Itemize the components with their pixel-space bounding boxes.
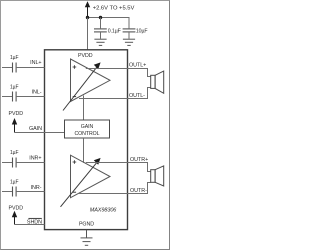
svg-text:PGND: PGND — [79, 221, 94, 227]
svg-text:INL-: INL- — [32, 90, 42, 96]
svg-text:OUTR-: OUTR- — [130, 188, 147, 194]
speaker SPKR — [151, 166, 164, 186]
op-amp A2 right-channel triangle — [71, 155, 111, 198]
wire: A1 to gain control — [83, 96, 85, 121]
VDD supply arrow — [85, 1, 90, 17]
gain arrow through A2 — [61, 158, 101, 207]
IC U1 MAX98306 outline box — [45, 50, 128, 230]
ground under C6 — [123, 39, 135, 45]
svg-text:1µF: 1µF — [10, 180, 18, 186]
junction dot at 0.1uF tap — [99, 16, 102, 19]
wire: C2 to INL- pin — [16, 96, 44, 98]
capacitor C3 1uF (INR+) — [2, 158, 16, 168]
svg-text:OUTL-: OUTL- — [129, 93, 145, 99]
svg-text:INL+: INL+ — [30, 60, 41, 66]
wire: A1 out+ to OUTL+ — [86, 69, 151, 77]
wire: gain control to A2 — [83, 138, 85, 163]
wire: rail down to PVDD pin — [87, 18, 89, 51]
svg-text:MAX98306: MAX98306 — [90, 208, 118, 214]
svg-text:PVDD: PVDD — [78, 53, 93, 59]
wire: PGND stub — [86, 230, 88, 238]
junction dot at PVDD feed — [86, 16, 89, 19]
ground under C5 — [94, 39, 106, 45]
wire: C3 to INR+ pin — [16, 162, 44, 164]
wire: A2 out+ to OUTR+ — [86, 163, 151, 172]
svg-text:INR+: INR+ — [29, 155, 41, 161]
svg-text:OUTL+: OUTL+ — [129, 62, 146, 68]
capacitor C2 1uF (INL-) — [2, 92, 16, 102]
capacitor C1 1uF (INL+) — [2, 63, 16, 73]
wire: C1 to INL+ pin — [16, 67, 44, 69]
svg-text:CONTROL: CONTROL — [74, 131, 99, 137]
wire: PVDD to SHDN pin — [15, 224, 45, 226]
svg-text:OUTR+: OUTR+ — [130, 157, 148, 163]
plus input mark — [73, 160, 77, 164]
svg-text:+2.6V TO +5.5V: +2.6V TO +5.5V — [93, 5, 135, 11]
wire: PVDD to GAIN pin into gain control — [15, 132, 65, 134]
svg-text:0.1µF: 0.1µF — [108, 28, 121, 34]
PVDD source arrow (SHDN pull-up) — [9, 206, 24, 225]
svg-text:PVDD: PVDD — [9, 206, 24, 212]
capacitor C5 0.1uF — [94, 18, 107, 39]
svg-text:INR-: INR- — [31, 185, 42, 191]
svg-text:1µF: 1µF — [10, 55, 18, 61]
svg-text:1µF: 1µF — [10, 150, 18, 156]
op-amp A1 left-channel triangle — [71, 59, 111, 102]
wire: A1 out- to OUTL- — [79, 88, 151, 99]
gain control block — [65, 120, 110, 138]
gain arrow through A1 — [63, 62, 101, 110]
minus input mark — [73, 191, 76, 193]
capacitor C4 1uF (INR-) — [2, 187, 16, 197]
svg-text:1µF: 1µF — [10, 84, 18, 90]
svg-text:PVDD: PVDD — [9, 111, 24, 117]
speaker SPKL — [151, 71, 164, 93]
capacitor C6 10uF — [123, 18, 136, 39]
svg-text:GAIN: GAIN — [29, 126, 42, 132]
plus input mark — [73, 65, 77, 69]
svg-text:GAIN: GAIN — [81, 124, 94, 130]
svg-text:SHDN: SHDN — [27, 219, 42, 225]
wire: top supply rail — [88, 17, 130, 19]
wire: C4 to INR- pin — [16, 191, 44, 193]
svg-text:10µF: 10µF — [136, 28, 148, 34]
PVDD source arrow (GAIN pull-up) — [9, 111, 24, 132]
wire: A2 out- to OUTR- — [79, 183, 151, 194]
ground under PGND — [81, 238, 93, 245]
minus input mark — [73, 96, 76, 98]
